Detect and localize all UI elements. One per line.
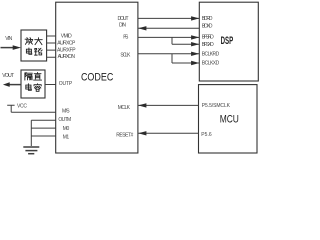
svg-text:CODEC: CODEC bbox=[81, 71, 114, 83]
svg-text:BDRD: BDRD bbox=[202, 16, 213, 22]
svg-text:P5.6: P5.6 bbox=[201, 132, 212, 138]
svg-text:MCU: MCU bbox=[220, 114, 239, 126]
svg-text:BCLKRD: BCLKRD bbox=[202, 52, 220, 58]
svg-text:VMID: VMID bbox=[61, 34, 72, 40]
svg-text:OUTP: OUTP bbox=[59, 81, 73, 87]
svg-text:FS: FS bbox=[123, 34, 129, 40]
svg-text:DSP: DSP bbox=[221, 35, 234, 47]
svg-text:BFSXD: BFSXD bbox=[202, 42, 214, 48]
svg-text:AURXON: AURXON bbox=[58, 54, 76, 60]
svg-text:VIN: VIN bbox=[5, 36, 12, 42]
svg-text:M0: M0 bbox=[63, 126, 70, 132]
svg-text:VOUT: VOUT bbox=[2, 73, 14, 79]
svg-text:AURXFP: AURXFP bbox=[57, 47, 76, 53]
svg-text:P5.5/SMCLK: P5.5/SMCLK bbox=[202, 103, 231, 109]
svg-text:DIN: DIN bbox=[119, 23, 126, 29]
svg-text:SCLK: SCLK bbox=[120, 52, 131, 58]
svg-text:VCC: VCC bbox=[17, 103, 27, 109]
svg-text:MCLK: MCLK bbox=[118, 105, 131, 111]
svg-text:M1: M1 bbox=[63, 134, 70, 140]
svg-text:BCLKXD: BCLKXD bbox=[202, 61, 220, 67]
svg-text:DOUT: DOUT bbox=[118, 16, 129, 22]
svg-text:BDXD: BDXD bbox=[202, 24, 213, 30]
svg-text:BFSRD: BFSRD bbox=[202, 35, 214, 41]
svg-text:M/S: M/S bbox=[62, 109, 70, 115]
svg-text:OUTM: OUTM bbox=[58, 117, 71, 123]
svg-text:RESET#: RESET# bbox=[116, 132, 133, 138]
svg-text:AURXCP: AURXCP bbox=[57, 40, 76, 46]
